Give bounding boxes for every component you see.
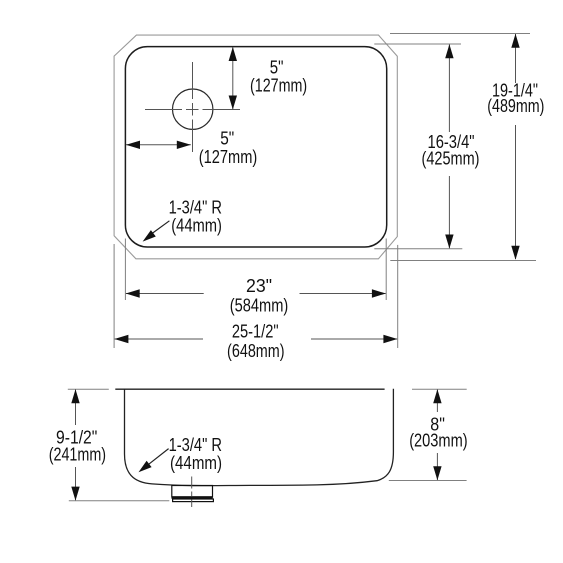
svg-text:(127mm): (127mm): [199, 147, 258, 167]
svg-text:(648mm): (648mm): [227, 341, 285, 361]
side view top rim line: [115, 388, 384, 390]
dim 9-1/2: line segments: [75, 390, 77, 426]
extension line 8 top: [412, 388, 467, 390]
faucet hole circle: [173, 89, 213, 129]
extension line 23 right: [385, 239, 387, 301]
svg-text:(489mm): (489mm): [487, 96, 544, 116]
dim 5in vertical: line: [232, 48, 234, 110]
extension line top outer (19-1/4 ref): [390, 33, 530, 35]
extension line 8 bottom: [389, 480, 467, 482]
faucet hole vertical centerline: [192, 62, 194, 152]
dim 25-1/2: left arrow: [114, 335, 128, 343]
dim 23: left arrow: [126, 289, 140, 297]
dim 23: line segments: [126, 293, 204, 295]
svg-text:(425mm): (425mm): [422, 148, 480, 168]
dim 9-1/2: bottom arrow: [71, 487, 79, 501]
drain centerline: [191, 477, 193, 508]
extension line bottom inner (16-3/4 ref): [374, 248, 462, 250]
dim 23: right arrow: [372, 289, 386, 297]
dim 8: line segments: [436, 390, 438, 413]
extension line bottom outer (19-1/4 ref): [390, 260, 536, 262]
extension line 25-1/2 right: [397, 245, 399, 348]
svg-text:(241mm): (241mm): [49, 445, 106, 465]
svg-text:(203mm): (203mm): [409, 431, 467, 451]
extension line top inner (16-3/4 ref): [374, 43, 461, 45]
dim 8: bottom arrow: [433, 466, 441, 480]
svg-text:(44mm): (44mm): [171, 216, 222, 236]
dim 25-1/2: line segments: [115, 338, 203, 340]
svg-text:5": 5": [220, 128, 234, 148]
drain lower lip: [173, 499, 214, 502]
svg-text:1-3/4" R: 1-3/4" R: [169, 198, 222, 218]
dim 9-1/2: top arrow: [71, 389, 79, 403]
svg-text:(44mm): (44mm): [170, 453, 222, 473]
svg-text:(127mm): (127mm): [250, 76, 307, 96]
corner radius leader (top view): [152, 221, 169, 234]
dim 5in vertical: top arrow: [229, 47, 237, 61]
drain flange thick band: [172, 496, 213, 499]
dim 19-1/4 vertical: line segments: [515, 34, 517, 83]
extension line 9-1/2 top: [68, 388, 109, 390]
side view bowl profile: [125, 389, 394, 486]
drain body: [172, 486, 213, 498]
dim 5in horizontal: line: [126, 144, 191, 146]
dim 5in horizontal: right arrow: [177, 141, 191, 149]
extension line 25-1/2 left: [113, 244, 115, 348]
dim 25-1/2: right arrow: [383, 335, 397, 343]
extension line 23 left: [124, 239, 126, 301]
extension line 9-1/2 bottom: [69, 500, 170, 502]
dim 8: top arrow: [433, 389, 441, 403]
dim 16-3/4: top arrow: [445, 44, 453, 58]
faucet hole horizontal centerline: [145, 109, 240, 111]
svg-text:23": 23": [246, 276, 272, 296]
sink outer rim (octagon outline): [114, 35, 397, 259]
sink bowl inner outline (rounded rect): [125, 47, 386, 247]
dim 5in horizontal: left arrow: [126, 141, 140, 149]
dim 19-1/4: top arrow: [511, 34, 519, 48]
dim 16-3/4: bottom arrow: [445, 235, 453, 249]
dim 5in vertical: bottom arrow: [229, 96, 237, 110]
corner radius leader (side view): [148, 449, 169, 465]
svg-text:(584mm): (584mm): [230, 295, 289, 315]
svg-text:25-1/2": 25-1/2": [232, 322, 279, 342]
dim 19-1/4: bottom arrow: [511, 246, 519, 260]
dim 16-3/4 vertical: line segments: [448, 45, 450, 133]
